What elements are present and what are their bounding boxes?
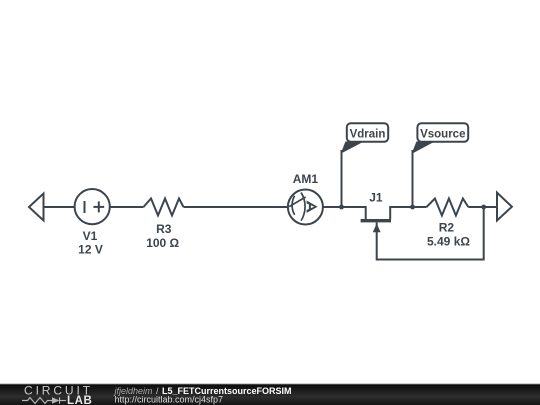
ammeter AM1 — [288, 190, 323, 225]
wire: drain node to J1 drain — [342, 207, 366, 220]
wire: R2 to output node to port P2 — [468, 206, 497, 208]
svg-text:Vsource: Vsource — [420, 129, 465, 141]
flag Vsource — [412, 123, 469, 154]
label R2 name — [439, 221, 455, 235]
junction: source node — [410, 205, 415, 210]
label V1 value 12 V — [78, 243, 103, 257]
svg-text:http://circuitlab.com/cj4sfp7: http://circuitlab.com/cj4sfp7 — [115, 395, 224, 405]
wire: V1 to R3 — [111, 206, 144, 208]
label J1 name — [369, 190, 383, 204]
label R2 value 5.49 kohm — [427, 234, 470, 248]
wire: Vdrain flag stem — [341, 150, 343, 207]
svg-text:12 V: 12 V — [78, 243, 103, 257]
junction: drain node — [339, 205, 344, 210]
svg-text:LAB: LAB — [67, 395, 92, 405]
resistor R2 — [427, 199, 469, 216]
svg-text:100 Ω: 100 Ω — [146, 236, 179, 250]
svg-text:R2: R2 — [439, 221, 455, 235]
svg-text:R3: R3 — [156, 222, 172, 236]
svg-text:AM1: AM1 — [293, 172, 319, 186]
label V1 name — [83, 229, 98, 243]
wire: J1 gate feedback to output node — [377, 207, 484, 260]
junction: output node — [481, 205, 486, 210]
flag Vdrain — [341, 123, 388, 153]
svg-text:Vdrain: Vdrain — [350, 129, 386, 141]
wire: J1 source to source node — [390, 207, 412, 220]
port P1 (left output terminal) — [29, 194, 44, 221]
wire: source node to R2 — [413, 206, 427, 208]
wire: AM1 to drain node — [323, 206, 341, 208]
label AM1 name — [293, 172, 319, 186]
CircuitLab logo resistor-diode glyph — [22, 397, 66, 403]
svg-text:V1: V1 — [83, 229, 98, 243]
svg-text:J1: J1 — [369, 190, 383, 204]
CircuitLab logo text CIRCUIT — [24, 383, 93, 397]
voltage source V1 — [75, 189, 110, 224]
wire: Vsource flag stem — [412, 150, 414, 207]
svg-text:5.49 kΩ: 5.49 kΩ — [427, 234, 470, 248]
label R3 value 100 ohm — [146, 236, 179, 250]
CircuitLab logo text LAB — [67, 395, 92, 405]
footer url line — [115, 395, 224, 405]
footer title line — [114, 386, 292, 396]
label R3 name — [156, 222, 172, 236]
resistor R3 — [144, 199, 184, 216]
transistor J1 (JFET) — [361, 221, 391, 233]
wire: R3 to AM1 — [184, 206, 288, 208]
port P2 (right output terminal) — [497, 193, 512, 221]
wire: port P1 to V1 — [44, 206, 76, 208]
